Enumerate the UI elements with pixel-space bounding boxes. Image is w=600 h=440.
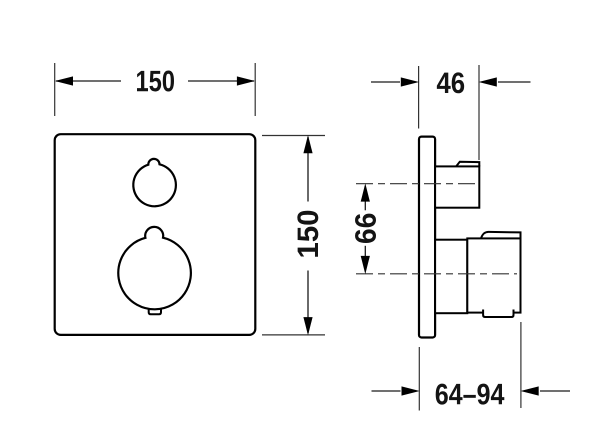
large knob (circle with top bump, keyhole outline) <box>118 227 191 309</box>
dim 150 top: left extension line <box>54 63 56 116</box>
side plate <box>419 137 435 338</box>
dim 150 right: up arrow <box>303 135 312 153</box>
centerline upper <box>356 183 478 185</box>
dim 46: left line + arrow <box>371 81 400 83</box>
dim 66: dimension line <box>364 186 366 210</box>
dim 64-94: label <box>436 384 505 405</box>
lower knob body <box>467 238 520 312</box>
dim 150 right: dimension line <box>307 137 309 202</box>
dim 150 top: right arrow <box>237 76 255 85</box>
dim 66: label (rotated) <box>355 214 376 243</box>
dim 66: up arrow <box>361 183 370 201</box>
upper knob body <box>435 166 479 207</box>
centerline lower <box>356 273 517 275</box>
dim 150 top: label <box>137 71 174 92</box>
dim 64-94: right extension line <box>520 322 522 408</box>
dim 150 right: down arrow <box>303 317 312 335</box>
dim 66: down arrow <box>361 256 370 274</box>
dim 150 top: dimension line <box>56 80 121 82</box>
dim 46: left extension line <box>418 66 420 129</box>
small knob (circle with top bump, keyhole outline) <box>133 159 176 206</box>
dim 150 right: top extension line <box>262 135 325 137</box>
front plate <box>55 134 256 335</box>
dim 150 right: bottom extension line <box>262 334 325 336</box>
dim 46: right line + arrow <box>498 81 531 83</box>
lower knob cap (lever) <box>481 232 521 239</box>
dim 64-94: left line + arrow <box>372 390 401 392</box>
lower knob tab <box>483 310 513 318</box>
lower knob sleeve <box>435 240 467 314</box>
dim 150 top: right extension line <box>254 63 256 116</box>
dim 46: right extension line <box>478 65 480 160</box>
dim 150 top: left arrow <box>55 76 73 85</box>
dim 64-94: left extension line <box>418 347 420 411</box>
large knob bottom tab <box>149 300 161 314</box>
dim 64-94: right line + arrow <box>540 390 570 392</box>
dim 150 right: label (rotated) <box>297 211 318 257</box>
upper knob cap (lever) <box>456 162 479 167</box>
dim 46: label <box>437 72 464 93</box>
